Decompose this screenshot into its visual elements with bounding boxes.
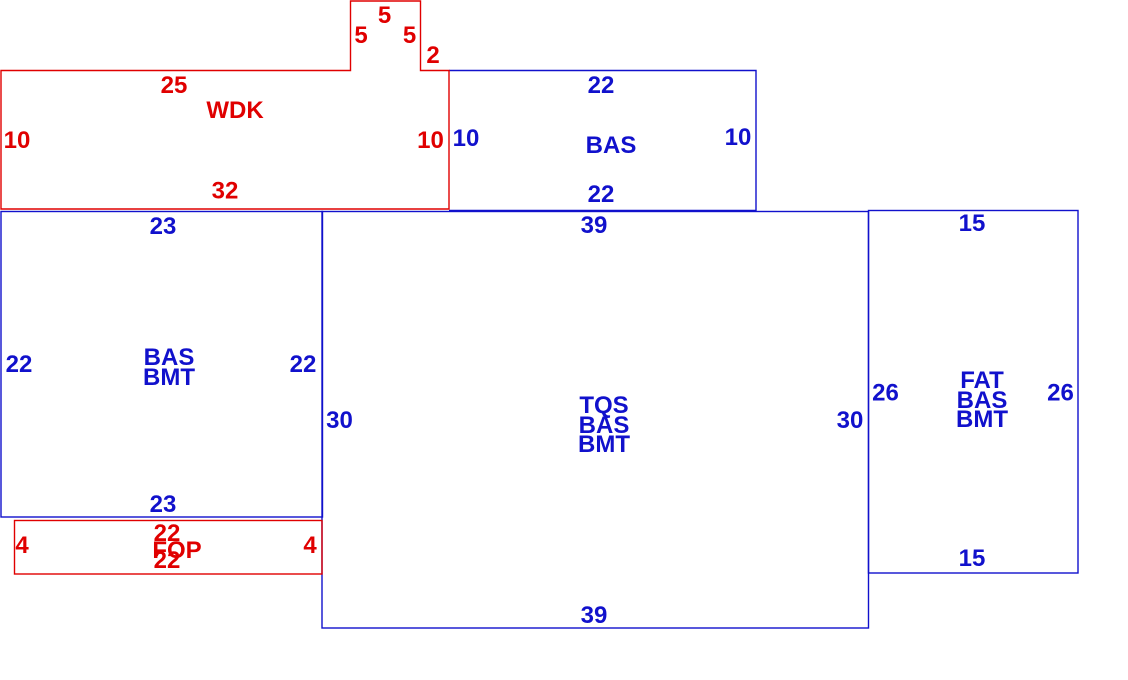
- svg-text:BMT: BMT: [143, 364, 195, 391]
- svg-text:BMT: BMT: [578, 431, 630, 458]
- svg-text:23: 23: [150, 213, 177, 240]
- svg-text:10: 10: [725, 124, 752, 151]
- area FAT BAS BMT (right) outline: [869, 211, 1079, 574]
- svg-text:10: 10: [453, 125, 480, 152]
- svg-text:5: 5: [403, 22, 416, 49]
- svg-text:30: 30: [837, 407, 864, 434]
- svg-text:WDK: WDK: [206, 97, 264, 124]
- svg-text:15: 15: [959, 545, 986, 572]
- svg-text:39: 39: [581, 602, 608, 629]
- svg-text:15: 15: [959, 210, 986, 237]
- svg-text:4: 4: [15, 532, 29, 559]
- area BAS (top right) outline: [449, 71, 756, 211]
- svg-text:23: 23: [150, 491, 177, 518]
- svg-text:5: 5: [354, 22, 367, 49]
- svg-text:2: 2: [426, 42, 439, 69]
- svg-text:22: 22: [6, 351, 33, 378]
- svg-text:26: 26: [1047, 380, 1074, 407]
- svg-text:BAS: BAS: [586, 132, 637, 159]
- area BAS BMT (left) outline: [1, 212, 323, 518]
- svg-text:30: 30: [326, 407, 353, 434]
- svg-text:BMT: BMT: [956, 406, 1008, 433]
- svg-text:22: 22: [154, 547, 181, 574]
- area WDK outline: [1, 1, 449, 209]
- svg-text:5: 5: [378, 2, 391, 29]
- svg-text:39: 39: [581, 212, 608, 239]
- svg-text:10: 10: [417, 127, 444, 154]
- svg-text:25: 25: [161, 72, 188, 99]
- svg-text:22: 22: [588, 181, 615, 208]
- svg-text:22: 22: [290, 351, 317, 378]
- area TQS BAS BMT (center) outline: [322, 212, 869, 629]
- svg-text:26: 26: [872, 380, 899, 407]
- svg-text:32: 32: [212, 178, 239, 205]
- svg-text:4: 4: [303, 532, 317, 559]
- svg-text:10: 10: [4, 127, 31, 154]
- svg-text:22: 22: [588, 72, 615, 99]
- area FOP outline: [15, 521, 323, 575]
